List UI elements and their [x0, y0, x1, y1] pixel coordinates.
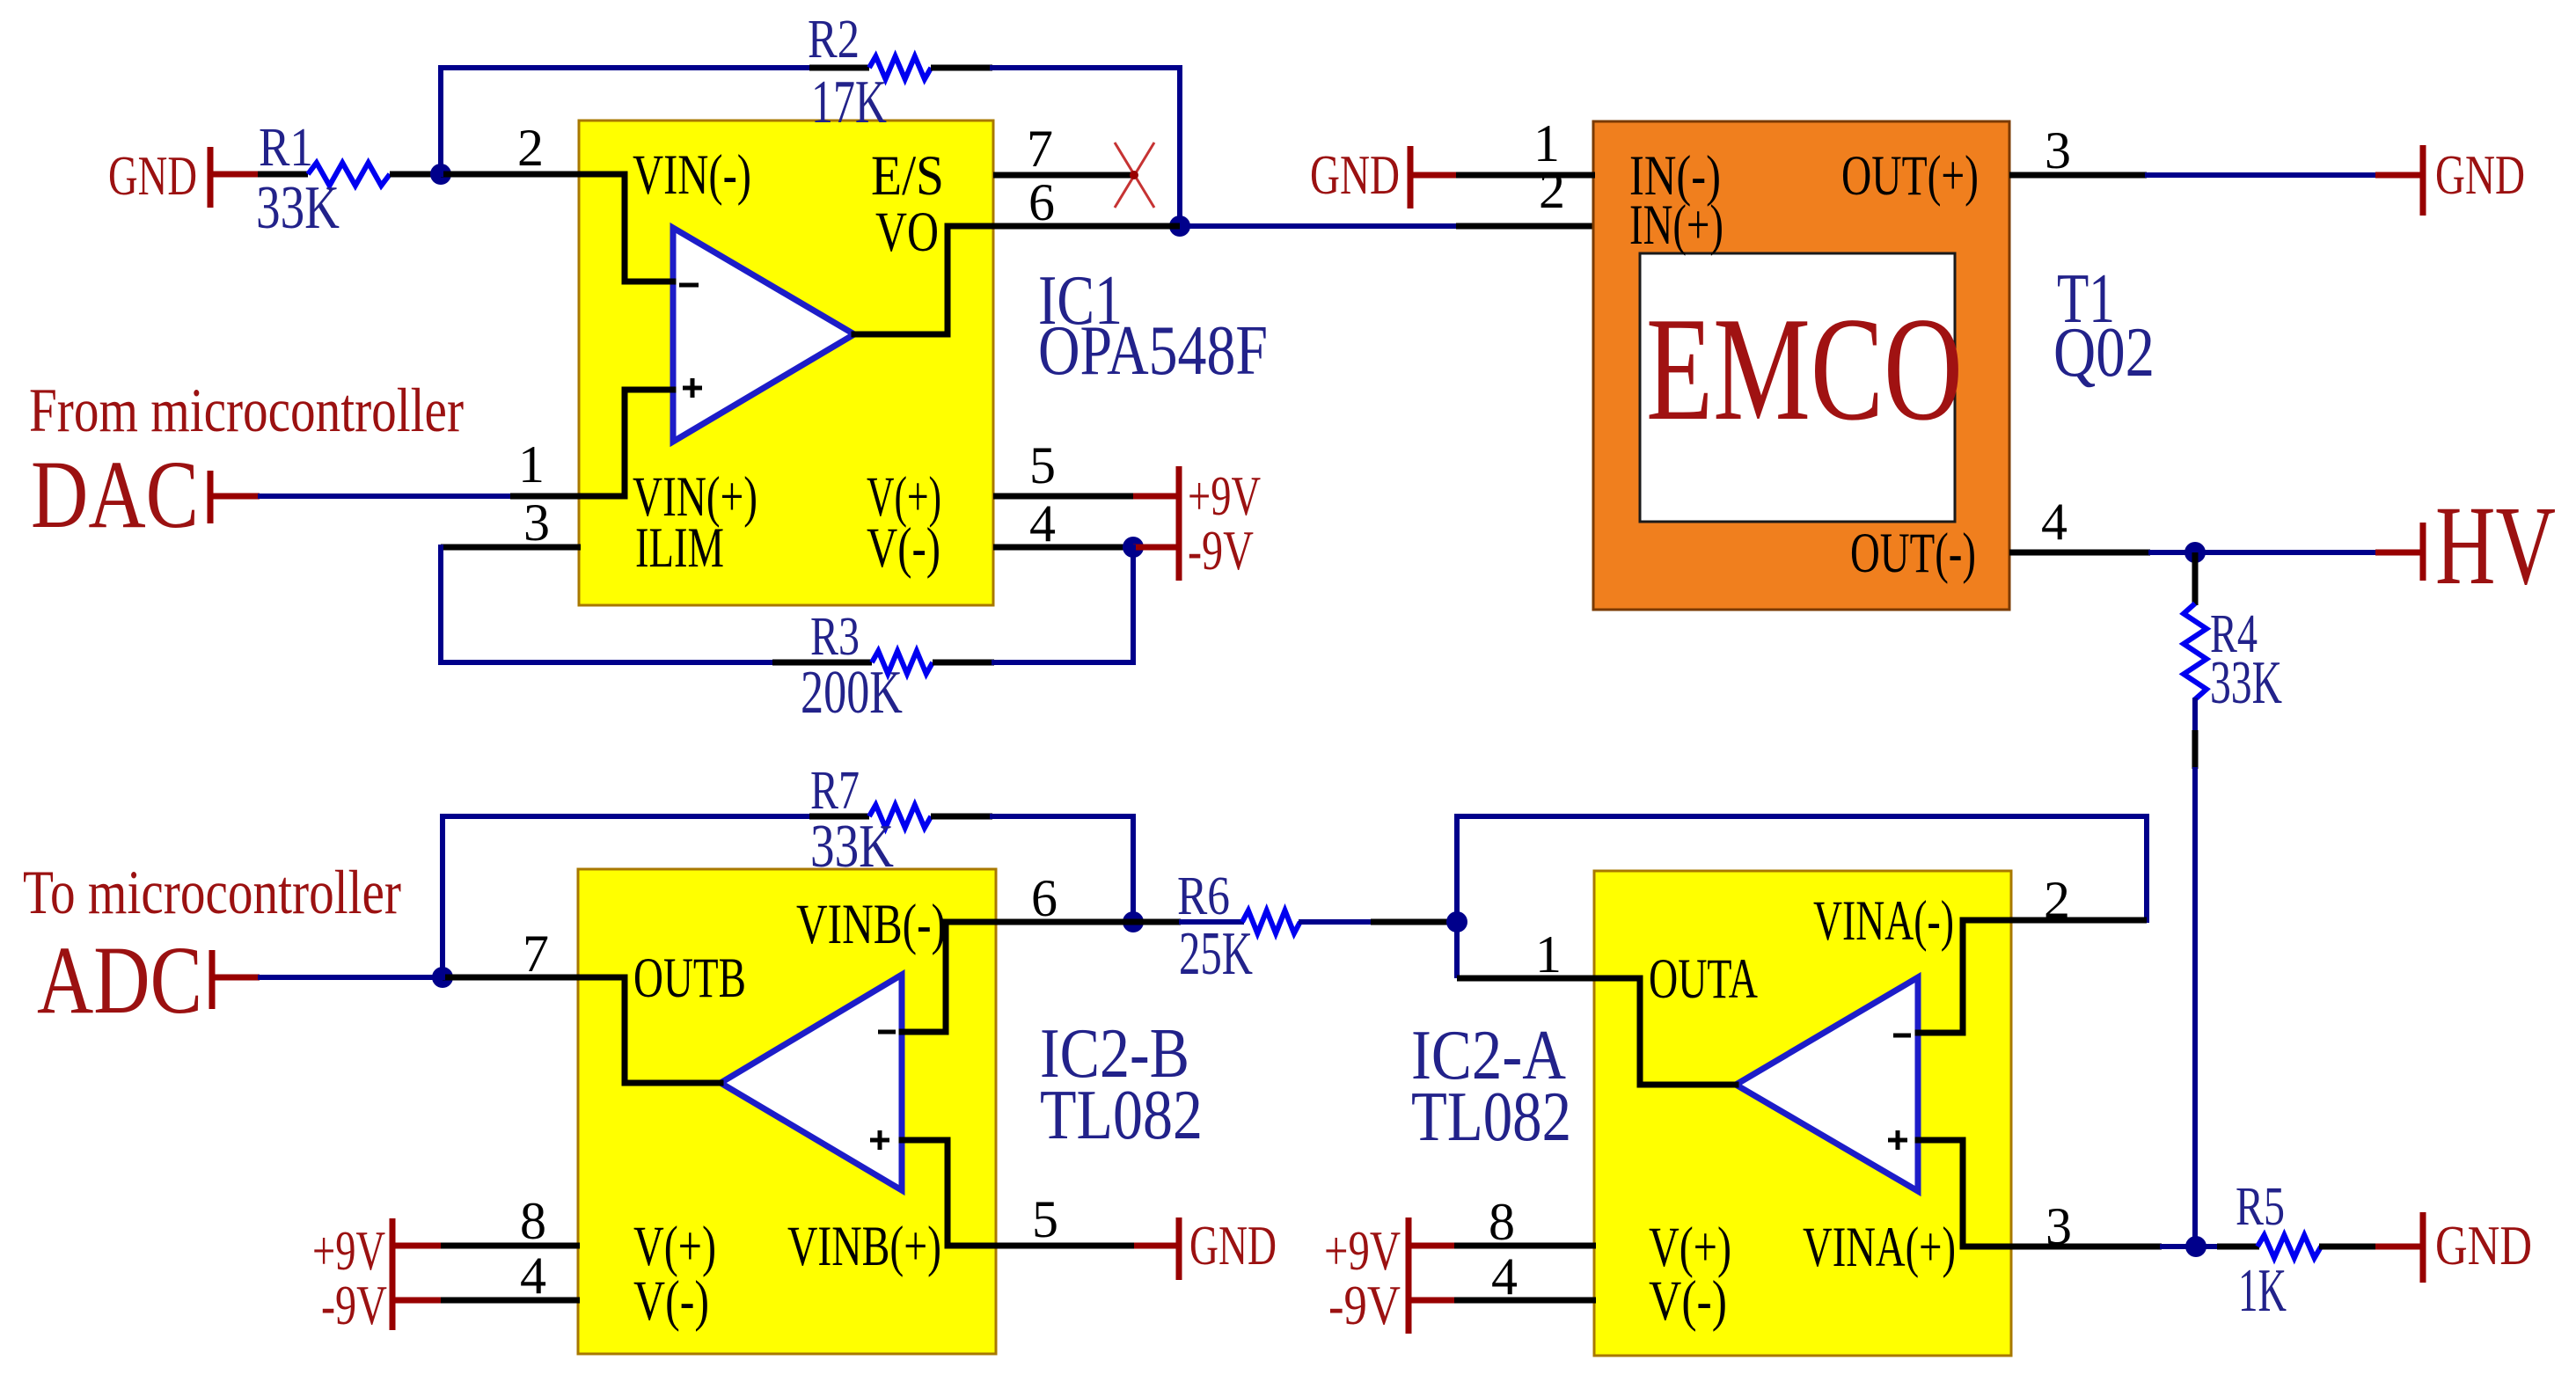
wire IC2B minus internal — [902, 922, 996, 1032]
pin number 8 IC2A — [1489, 1193, 1515, 1251]
op-amp U2B plus sign — [870, 1130, 889, 1150]
pin label IN(+) — [1629, 194, 1723, 257]
wire R4 top — [2192, 552, 2199, 605]
ground symbol GND (IC2B pin5) — [1179, 1215, 1277, 1280]
pin label OUT(-) — [1850, 522, 1976, 585]
pin number 1 T1 — [1533, 114, 1560, 172]
svg-text:VIN(-): VIN(-) — [633, 143, 751, 207]
pin number 1 IC2A — [1535, 925, 1562, 983]
wire IC1 pin2 internal — [581, 174, 673, 282]
wire E/S pin7 — [993, 172, 1133, 179]
wire GND to R1 — [213, 172, 260, 178]
svg-text:VINB(-): VINB(-) — [796, 893, 946, 956]
pin number 3 T1 — [2045, 121, 2071, 179]
pin label VINA(-) — [1813, 889, 1954, 953]
pin label V(+) IC2A — [1649, 1216, 1731, 1279]
wire R3 right riser — [994, 547, 1133, 662]
label To microcontroller — [23, 859, 401, 927]
wire pin 2 to IC1 — [441, 172, 581, 178]
resistor R1 33K — [256, 118, 441, 242]
svg-text:6: 6 — [1028, 173, 1055, 231]
wire VO to T1 IN(+) — [1180, 223, 1595, 229]
wire IC2A feedback — [1457, 816, 2147, 922]
node junction R4/R5/pin3 — [2185, 1236, 2206, 1257]
svg-text:OUTA: OUTA — [1649, 947, 1758, 1011]
part label IC2-A — [1411, 1017, 1571, 1156]
wire pin3 ILIM — [441, 545, 581, 551]
node junction R1/pin2/R2 — [430, 164, 451, 185]
svg-text:E/S: E/S — [871, 144, 944, 208]
pin label VO — [875, 201, 939, 264]
svg-text:25K: 25K — [1179, 920, 1253, 988]
resistor R6 25K — [1133, 866, 1457, 988]
wire V(-) to -9V bar — [1133, 545, 1177, 551]
ground symbol GND (T1 IN-) — [1310, 144, 1410, 208]
pin number 3 IC2A — [2045, 1197, 2072, 1255]
op-amp U2B triangle — [721, 975, 902, 1190]
wire R7 left riser — [443, 816, 809, 977]
wire GND to T1 pin1 — [1413, 172, 1595, 179]
ground symbol GND (OUT+) — [2423, 144, 2525, 216]
pin number 4 T1 — [2041, 493, 2067, 551]
svg-text:3: 3 — [523, 494, 550, 552]
wire IC2A plus internal — [1918, 1140, 2011, 1247]
terminal DAC — [31, 441, 210, 548]
svg-text:VO: VO — [875, 201, 939, 264]
pin label VIN(+) — [633, 465, 757, 529]
svg-text:5: 5 — [1032, 1190, 1058, 1248]
svg-text:33K: 33K — [2210, 649, 2282, 717]
transformer T1 EMCO Q02 box — [1593, 121, 2009, 610]
part label IC2-B — [1040, 1015, 1203, 1154]
svg-text:V(-): V(-) — [867, 516, 940, 580]
svg-text:4: 4 — [1029, 494, 1056, 552]
svg-text:GND: GND — [108, 145, 197, 207]
resistor R2 labels — [808, 10, 887, 136]
wire IC2A pin8 +9V — [1411, 1243, 1596, 1249]
part label T1 — [2053, 260, 2155, 391]
svg-text:ADC: ADC — [37, 926, 202, 1034]
node junction OUT(-)/R4/HV — [2184, 542, 2206, 563]
node junction VO/R2/T1 — [1169, 216, 1190, 237]
pin number 4 — [1029, 494, 1056, 552]
resistor R5 1K — [2196, 1177, 2421, 1325]
op-amp U1 minus sign — [679, 283, 699, 288]
pin number 3 — [523, 494, 550, 552]
pin number 7 — [1027, 120, 1053, 178]
pin label V(-) IC1 — [867, 516, 940, 580]
wire OUT(+) pin3 — [2009, 172, 2421, 179]
svg-text:2: 2 — [2044, 871, 2070, 929]
wire IC2A pin1 internal — [1595, 978, 1736, 1085]
svg-text:GND: GND — [1310, 144, 1400, 206]
svg-text:GND: GND — [1189, 1215, 1277, 1276]
svg-text:ILIM: ILIM — [635, 516, 724, 580]
pin number 5 — [1029, 436, 1056, 494]
wire IC2B pin7 internal — [580, 977, 721, 1083]
wire IC2B pin4 -9V — [395, 1298, 580, 1304]
wire IC2B plus internal — [902, 1140, 996, 1246]
svg-text:TL082: TL082 — [1411, 1079, 1571, 1156]
svg-text:OPA548F: OPA548F — [1038, 312, 1268, 390]
pin label VINB(+) — [787, 1215, 941, 1278]
pin label OUTA — [1649, 947, 1758, 1011]
svg-text:R6: R6 — [1177, 866, 1230, 926]
pin label V(-) IC2A — [1649, 1269, 1727, 1333]
wire R4 bottom — [2192, 698, 2198, 1247]
op-amp U2A triangle — [1736, 977, 1918, 1191]
svg-text:VINA(+): VINA(+) — [1803, 1216, 1956, 1279]
op-amp U2B IC2-B box — [578, 869, 996, 1354]
svg-text:200K: 200K — [801, 659, 903, 727]
svg-text:EMCO: EMCO — [1646, 286, 1963, 451]
svg-text:3: 3 — [2045, 121, 2071, 179]
resistor R4 33K — [2184, 603, 2282, 717]
svg-text:8: 8 — [520, 1192, 546, 1250]
svg-text:8: 8 — [1489, 1193, 1515, 1251]
pin number 8 IC2B — [520, 1192, 546, 1250]
svg-text:Q02: Q02 — [2053, 314, 2155, 391]
svg-text:1K: 1K — [2238, 1257, 2287, 1325]
wire pin6 VINB(-) — [996, 919, 1133, 925]
op-amp U1 IC1 OPA548F box — [579, 121, 993, 605]
svg-text:+9V: +9V — [1188, 464, 1261, 527]
resistor R3 200K — [772, 607, 994, 727]
wire pin7 OUTB — [443, 975, 580, 981]
pin number 6 IC2B — [1031, 869, 1057, 927]
op-amp U2A plus sign — [1888, 1130, 1907, 1150]
wire R7 right riser — [992, 816, 1133, 922]
svg-text:+9V: +9V — [1324, 1219, 1401, 1282]
svg-text:OUT(+): OUT(+) — [1841, 144, 1979, 208]
wire pin1 OUTA — [1457, 976, 1595, 982]
pin label VINA(+) — [1803, 1216, 1956, 1279]
pin label OUTB — [633, 947, 746, 1010]
pin label VINB(-) — [796, 893, 946, 956]
svg-text:OUT(-): OUT(-) — [1850, 522, 1976, 585]
wire IC2A pin4 -9V — [1411, 1298, 1596, 1304]
svg-text:R1: R1 — [259, 118, 313, 178]
pin number 4 IC2A — [1491, 1247, 1518, 1305]
svg-text:GND: GND — [2435, 144, 2525, 206]
svg-text:-9V: -9V — [1328, 1274, 1401, 1336]
wire DAC to pin 1 — [213, 494, 581, 500]
pin label VIN(-) — [633, 143, 751, 207]
pin number 1 — [518, 435, 545, 494]
power symbol +9V/-9V IC2B — [312, 1218, 392, 1336]
wire ADC — [215, 975, 443, 981]
wire R3 left riser — [441, 547, 772, 662]
pin number 6 — [1028, 173, 1055, 231]
wire IC2A pin1 riser — [1454, 922, 1460, 978]
pin number 2 IC2A — [2044, 871, 2070, 929]
svg-text:To microcontroller: To microcontroller — [23, 859, 401, 927]
label EMCO — [1646, 286, 1963, 451]
pin number 7 IC2B — [523, 925, 549, 983]
op-amp U1 triangle — [673, 228, 854, 442]
svg-text:VINA(-): VINA(-) — [1813, 889, 1954, 953]
node junction V(-)/R3 — [1123, 537, 1144, 558]
op-amp U1 plus sign — [683, 378, 702, 398]
wire IC2A pin2 VINA(-) — [2011, 918, 2147, 924]
svg-text:2: 2 — [517, 119, 544, 177]
svg-text:5: 5 — [1029, 436, 1056, 494]
wire to HV — [2195, 550, 2421, 555]
wire pin5 to +9V — [993, 494, 1177, 500]
svg-text:-9V: -9V — [1188, 519, 1254, 581]
power symbol +9V/-9V IC2A — [1324, 1217, 1409, 1336]
label From microcontroller — [29, 377, 464, 445]
pin number 4 IC2B — [520, 1247, 546, 1305]
svg-text:DAC: DAC — [31, 441, 199, 548]
pin number 5 IC2B — [1032, 1190, 1058, 1248]
no-connect X on pin 7 — [1115, 143, 1154, 208]
svg-text:2: 2 — [1539, 161, 1565, 219]
wire pin4 V(-) — [993, 545, 1133, 551]
svg-text:1: 1 — [1535, 925, 1562, 983]
op-amp U2A IC2-A box — [1594, 871, 2011, 1356]
ground symbol GND (R1 input) — [108, 145, 210, 208]
node junction ADC/R7 — [432, 967, 453, 988]
wire IC1 pin1 internal — [581, 390, 673, 496]
svg-text:4: 4 — [520, 1247, 546, 1305]
svg-text:From microcontroller: From microcontroller — [29, 377, 464, 445]
wire IC2B pin8 +9V — [395, 1243, 580, 1249]
svg-text:HV: HV — [2435, 483, 2556, 608]
pin label ILIM — [635, 516, 724, 580]
wire OUT(-) pin4 — [2009, 550, 2195, 556]
svg-text:V(-): V(-) — [1649, 1269, 1727, 1333]
pin label OUT(+) — [1841, 144, 1979, 208]
resistor R2 17K wires — [809, 56, 992, 79]
svg-text:1: 1 — [518, 435, 545, 494]
pin label E/S — [871, 144, 944, 208]
pin number 2 — [517, 119, 544, 177]
svg-text:6: 6 — [1031, 869, 1057, 927]
wire R2 feedback right to VO node — [992, 68, 1180, 226]
svg-text:-9V: -9V — [321, 1274, 387, 1336]
svg-text:4: 4 — [1491, 1247, 1518, 1305]
op-amp U2B minus sign — [878, 1030, 896, 1035]
svg-text:4: 4 — [2041, 493, 2067, 551]
svg-text:R5: R5 — [2236, 1177, 2285, 1237]
wire IC2A minus internal — [1918, 920, 2011, 1033]
svg-text:IN(+): IN(+) — [1629, 194, 1723, 257]
wire R2 feedback left riser — [441, 68, 809, 174]
power symbol +9V/-9V IC1 — [1179, 464, 1261, 581]
svg-text:+9V: +9V — [312, 1219, 385, 1282]
svg-text:17K: 17K — [811, 69, 887, 136]
wire IC2A pin3 VINA(+) — [2011, 1244, 2196, 1250]
pin label V(+) IC2B — [633, 1215, 716, 1278]
svg-text:R7: R7 — [810, 761, 860, 821]
svg-text:7: 7 — [523, 925, 549, 983]
pin number 2 T1 — [1539, 161, 1565, 219]
svg-text:OUTB: OUTB — [633, 947, 746, 1010]
node junction R6/OUTA/feedback — [1446, 911, 1467, 932]
terminal ADC — [37, 926, 212, 1034]
wire IC2B pin5 to GND — [996, 1243, 1177, 1249]
wire VO pin6 — [993, 223, 1180, 230]
pin label IN(-) — [1629, 144, 1721, 208]
node junction R7/pin6/R6 — [1123, 911, 1144, 932]
wire IC1 output internal — [854, 226, 993, 334]
pin label V(+) IC1 — [867, 465, 941, 529]
svg-text:VINB(+): VINB(+) — [787, 1215, 941, 1278]
svg-text:7: 7 — [1027, 120, 1053, 178]
part label IC1 — [1038, 262, 1268, 390]
svg-text:R2: R2 — [808, 10, 860, 69]
pin label V(-) IC2B — [633, 1269, 709, 1333]
svg-text:GND: GND — [2435, 1215, 2532, 1276]
resistor R7 33K — [809, 761, 992, 881]
ground symbol GND (R5) — [2423, 1212, 2532, 1283]
op-amp U2A minus sign — [1893, 1034, 1911, 1038]
svg-text:V(-): V(-) — [633, 1269, 709, 1333]
svg-text:33K: 33K — [256, 174, 340, 242]
svg-text:TL082: TL082 — [1040, 1077, 1203, 1154]
terminal HV — [2423, 483, 2556, 608]
svg-text:R3: R3 — [810, 607, 860, 667]
